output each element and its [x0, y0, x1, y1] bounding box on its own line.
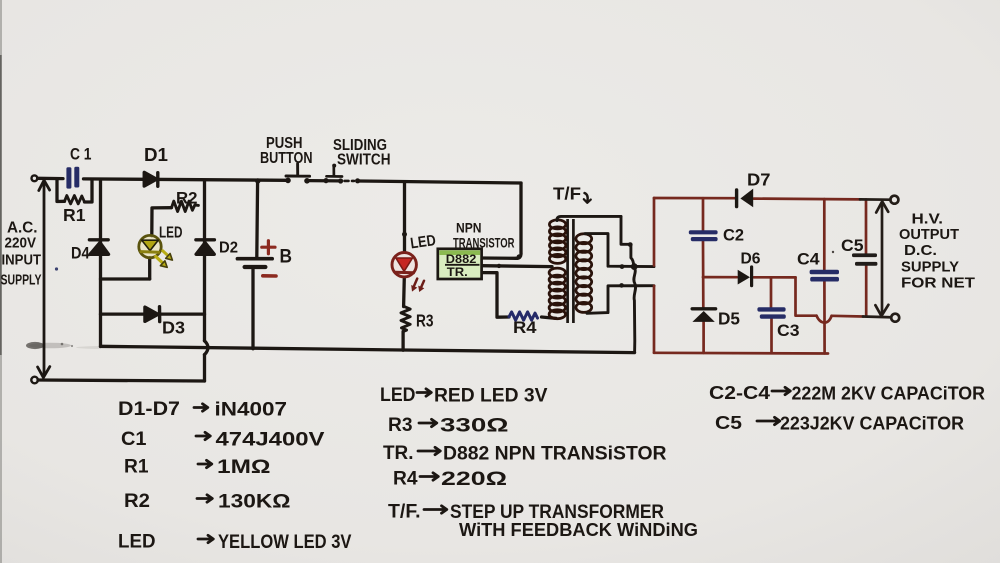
- legend arrow row R1: [198, 460, 212, 467]
- legend arrow row C2-C4: [772, 387, 790, 394]
- wire: top rail final black segment: [860, 198, 890, 201]
- svg-text:LED: LED: [159, 225, 183, 242]
- wire: sliding switch dashed segment: [345, 180, 355, 183]
- svg-text:TR.: TR.: [447, 265, 468, 279]
- svg-text:R4: R4: [513, 319, 537, 337]
- node: junction dot on red LED branch: [402, 232, 407, 237]
- legend arrow row C1: [196, 432, 210, 439]
- diode D7: [737, 189, 754, 208]
- diode D2: [196, 238, 215, 241]
- resistor R3: [401, 307, 410, 332]
- capacitor C2 plates: [689, 230, 718, 241]
- wire: HV left vertical upper: [653, 198, 656, 266]
- wire: top bus segment between push button and sliding switch: [309, 179, 339, 183]
- wire: R4 to feedback winding: [542, 317, 557, 318]
- svg-text:C1: C1: [121, 428, 147, 450]
- push button contacts: [285, 178, 291, 184]
- diode D6: [738, 267, 752, 286]
- measurement arrow: AC input span: [43, 184, 46, 374]
- battery B plates: [237, 257, 272, 261]
- svg-text:474J400V: 474J400V: [216, 429, 325, 451]
- svg-text:H.V.: H.V.: [912, 211, 944, 228]
- wire: hop under C4 lead: [817, 316, 832, 323]
- capacitor C4 plates: [810, 270, 839, 282]
- push button actuator: [286, 164, 310, 176]
- svg-text:C5: C5: [715, 412, 742, 433]
- wire: C2 branch upper lead: [702, 198, 705, 230]
- svg-text:222M 2KV CAPACiTOR: 222M 2KV CAPACiTOR: [792, 383, 986, 404]
- transformer T/F assembly: [549, 219, 592, 323]
- transistor U1 body (D882): [438, 249, 482, 279]
- legend arrow row D1-D7: [194, 404, 208, 411]
- transistor lead 2 (to transformer tap): [482, 264, 552, 268]
- wire: HV minus final black segment: [863, 315, 891, 318]
- wire: top bus segment from sliding switch to transistor drop: [359, 181, 521, 183]
- svg-text:C4: C4: [797, 251, 820, 269]
- wire: R1 bypass loop: [57, 179, 92, 202]
- svg-text:130KΩ: 130KΩ: [218, 491, 291, 513]
- svg-text:T/F: T/F: [553, 184, 581, 204]
- wire: C4 lower lead through hop to bottom rail: [823, 282, 826, 354]
- node: AC input top terminal: [32, 175, 38, 181]
- diode D3: [145, 307, 158, 321]
- wire: D6 branch: [703, 276, 796, 279]
- capacitor C1 plates: [66, 167, 79, 189]
- LED yellow indicator: [139, 235, 173, 267]
- wire: battery positive lead: [255, 181, 259, 258]
- wire: battery negative lead: [251, 268, 254, 349]
- wire: C5 upper lead: [865, 200, 868, 254]
- wire: red LED branch from top bus: [403, 183, 406, 252]
- battery polarity + mark: [262, 241, 275, 254]
- svg-text:iN4007: iN4007: [215, 399, 288, 421]
- wire: primary top lead staircase to common node: [621, 216, 634, 266]
- wire: HV left vertical lower: [653, 286, 656, 353]
- svg-text:C2-C4: C2-C4: [709, 382, 771, 403]
- legend arrow row R3: [419, 419, 437, 426]
- wire: bottom AC bus: [38, 380, 205, 381]
- wire: D6 output drop to HV minus line: [796, 277, 817, 315]
- legend column 1: [194, 404, 213, 543]
- svg-text:C5: C5: [841, 237, 864, 255]
- wire: D5 bottom lead: [702, 322, 705, 353]
- wire: D3 branch: [101, 312, 205, 315]
- transformer secondary winding: [576, 234, 592, 244]
- svg-text:D2: D2: [219, 240, 238, 257]
- wire: HV top rail: [654, 198, 860, 199]
- wire: C2 to D6 junction to D5: [702, 241, 705, 307]
- svg-text:INPUT: INPUT: [2, 252, 42, 269]
- svg-text:R2: R2: [124, 490, 150, 512]
- wire: transistor collector drop and hook: [516, 183, 521, 258]
- svg-text:NPN: NPN: [456, 220, 482, 236]
- svg-text:TR.: TR.: [383, 442, 414, 464]
- svg-text:B: B: [280, 247, 293, 268]
- svg-text:D7: D7: [747, 170, 771, 190]
- battery polarity - mark: [263, 274, 276, 278]
- wire: HV minus line to C5 and terminal: [832, 314, 863, 317]
- node: collector hook blob: [517, 254, 522, 259]
- wire: secondary bottom lead: [587, 286, 654, 314]
- svg-text:220Ω: 220Ω: [441, 468, 507, 490]
- node: AC input bottom terminal: [31, 377, 38, 384]
- legend column 3: [757, 387, 790, 424]
- wire: secondary top lead: [585, 234, 654, 267]
- wire: LED bottom link: [101, 277, 150, 280]
- wire: C4 upper lead: [823, 199, 826, 270]
- svg-text:D3: D3: [162, 318, 185, 338]
- node: blob on staircase step: [628, 242, 633, 247]
- svg-text:D.C.: D.C.: [904, 242, 937, 259]
- svg-text:FOR NET: FOR NET: [901, 275, 975, 292]
- svg-text:TRANSISTOR: TRANSISTOR: [453, 235, 515, 251]
- legend arrow row TR: [418, 447, 440, 454]
- svg-text:330Ω: 330Ω: [440, 415, 509, 437]
- svg-text:220V: 220V: [5, 235, 37, 252]
- legend arrow row R2: [197, 495, 212, 502]
- transformer primary winding upper section: [549, 220, 565, 229]
- svg-text:R3: R3: [416, 311, 434, 331]
- svg-text:R1: R1: [63, 205, 86, 225]
- wire: mid ground bus to transformer: [101, 346, 635, 352]
- wire: top bus segment from C1 to push button: [84, 179, 287, 180]
- svg-text:LED: LED: [118, 531, 156, 553]
- sliding switch contacts and lever: [323, 178, 328, 183]
- measurement arrow: HV output span: [875, 201, 888, 316]
- diode D1: [144, 172, 156, 186]
- LED red indicator: [392, 253, 424, 292]
- wire: squiggle from common node down to ground bus: [634, 267, 636, 353]
- svg-text:R1: R1: [124, 456, 149, 478]
- svg-text:OUTPUT: OUTPUT: [899, 226, 959, 243]
- svg-text:D1-D7: D1-D7: [118, 398, 180, 420]
- legend arrow row R4: [420, 473, 438, 480]
- svg-text:C3: C3: [777, 322, 800, 340]
- svg-text:R3: R3: [388, 414, 413, 436]
- node: blob on secondary top lead: [620, 264, 625, 269]
- svg-text:RED LED 3V: RED LED 3V: [434, 385, 548, 407]
- svg-text:C2: C2: [723, 227, 744, 245]
- transistor lead 3 (to R4): [482, 273, 509, 318]
- wire: bridge branch 2 vertical (D2) with crossover hop: [203, 181, 206, 341]
- node: battery top junction: [255, 178, 260, 183]
- svg-text:SUPPLY: SUPPLY: [901, 259, 959, 276]
- node: HV output terminal minus: [891, 314, 899, 322]
- svg-text:R2: R2: [176, 190, 198, 208]
- wire: yellow LED top lead from R2: [152, 208, 172, 236]
- HV multiplier red wiring: [654, 198, 891, 354]
- svg-text:D1: D1: [144, 144, 168, 165]
- legend arrow row T/F: [424, 506, 447, 513]
- svg-text:T/F.: T/F.: [388, 501, 421, 523]
- wire: HV bottom rail: [654, 351, 828, 354]
- legend arrow row C5: [757, 417, 780, 424]
- wire: C3 upper lead: [770, 277, 773, 307]
- wire: yellow LED bottom lead: [148, 258, 151, 279]
- diode D5: [692, 309, 715, 322]
- node: dot on secondary bottom lead: [619, 283, 624, 288]
- wire: bridge branch 1 vertical (D4 / LED / bus): [99, 179, 102, 346]
- svg-text:1MΩ: 1MΩ: [217, 456, 271, 478]
- capacitor C5 plates: [852, 253, 877, 265]
- capacitor C3 plates: [757, 307, 785, 318]
- diode D4: [89, 238, 108, 241]
- svg-text:D882 NPN TRANSiSTOR: D882 NPN TRANSiSTOR: [443, 443, 667, 465]
- legend column 2: [417, 389, 447, 513]
- svg-text:R4: R4: [393, 468, 418, 490]
- svg-text:WiTH FEEDBACK WiNDiNG: WiTH FEEDBACK WiNDiNG: [459, 520, 698, 540]
- wire: C5 lower lead: [865, 266, 868, 316]
- svg-text:LED: LED: [380, 384, 416, 406]
- wire: top bus segment from input terminal to C1: [38, 177, 63, 181]
- transformer core: [566, 219, 569, 323]
- wire: C3 bottom lead: [770, 319, 773, 353]
- svg-text:C 1: C 1: [70, 146, 92, 164]
- svg-text:SWITCH: SWITCH: [337, 152, 391, 169]
- wire: red LED to R3: [402, 277, 406, 306]
- svg-text:BUTTON: BUTTON: [260, 150, 313, 167]
- svg-text:D6: D6: [741, 251, 761, 268]
- node: transformer common junction: [631, 263, 638, 270]
- transformer feedback winding lower section: [549, 268, 565, 277]
- node: HV output terminal plus: [890, 196, 898, 204]
- resistor R2: [172, 201, 199, 211]
- node: lead 2 junction blob: [497, 264, 501, 268]
- svg-text:SUPPLY: SUPPLY: [1, 272, 42, 289]
- wire: R3 bottom lead to ground bus: [401, 332, 404, 351]
- svg-text:223J2KV CAPACiTOR: 223J2KV CAPACiTOR: [780, 413, 964, 434]
- svg-text:D5: D5: [718, 309, 740, 329]
- resistor R1: [65, 196, 85, 204]
- wire: primary top lead over core: [557, 216, 621, 220]
- legend arrow row LED yellow: [198, 535, 213, 542]
- transistor lead 1 (to collector hook): [482, 256, 517, 260]
- svg-text:YELLOW LED 3V: YELLOW LED 3V: [218, 531, 352, 553]
- svg-text:D4: D4: [71, 245, 90, 263]
- resistor R4 (navy zigzag): [509, 312, 538, 320]
- svg-text:LED: LED: [409, 232, 437, 252]
- legend arrow row LED red: [417, 389, 431, 396]
